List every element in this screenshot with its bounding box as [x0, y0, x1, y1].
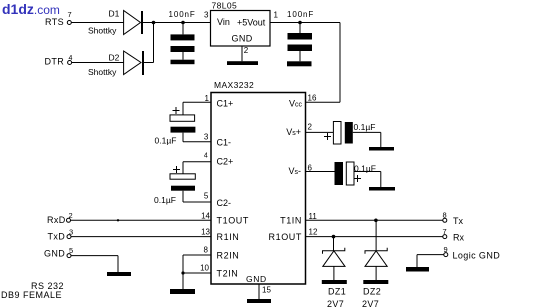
svg-text:Vin: Vin	[217, 17, 230, 27]
wire DTR to D2 anode	[72, 62, 124, 64]
svg-text:Vs-: Vs-	[288, 166, 301, 176]
svg-text:2: 2	[308, 123, 313, 132]
svg-text:GND: GND	[246, 274, 267, 284]
svg-text:0.1µF: 0.1µF	[154, 195, 176, 205]
ground (regulator)	[227, 61, 258, 65]
svg-text:0.1µF: 0.1µF	[155, 136, 177, 146]
pin 6 Vs-	[288, 164, 334, 177]
svg-text:R1IN: R1IN	[217, 232, 240, 242]
svg-text:DB9 FEMALE: DB9 FEMALE	[1, 290, 62, 300]
ground (DZ1)	[322, 280, 347, 284]
diode D1 (Schottky)	[88, 9, 143, 36]
svg-text:DZ2: DZ2	[363, 287, 381, 297]
capacitor C1 0.1uF	[155, 102, 196, 145]
svg-text:11: 11	[309, 212, 318, 221]
pin 15 GND	[246, 274, 271, 299]
connector GND (DB9 pin 5)	[44, 246, 73, 259]
svg-text:GND: GND	[232, 34, 253, 44]
svg-text:78L05: 78L05	[212, 1, 238, 11]
svg-text:GND: GND	[44, 249, 65, 259]
connector RxD (DB9 pin 2)	[47, 211, 73, 225]
svg-text:Vs+: Vs+	[286, 127, 301, 137]
svg-text:3: 3	[204, 132, 209, 141]
ground (Vs- cap)	[369, 187, 395, 191]
svg-text:16: 16	[308, 94, 317, 103]
node junction at input cap	[181, 21, 185, 25]
connector DTR (DB9 pin 4)	[45, 55, 73, 67]
pin 2 Vs+	[286, 123, 333, 138]
svg-text:T2IN: T2IN	[217, 269, 239, 279]
capacitor C4 0.1uF (Vs-)	[335, 162, 381, 187]
svg-text:R1OUT: R1OUT	[268, 232, 302, 242]
svg-text:Tx: Tx	[453, 216, 463, 226]
svg-text:C2+: C2+	[217, 157, 234, 167]
wire R2IN/T2IN junction to ground	[181, 255, 184, 289]
ground (DZ2)	[363, 280, 388, 284]
svg-text:14: 14	[201, 212, 210, 221]
wire D2 cathode to junction	[144, 62, 154, 64]
svg-text:12: 12	[309, 228, 318, 237]
zener diode DZ2 2V7	[362, 220, 387, 308]
ground (Logic GND)	[406, 267, 429, 272]
IC U1 MAX3232	[211, 80, 306, 284]
capacitor C2 0.1uF	[154, 162, 195, 205]
svg-text:3: 3	[204, 11, 209, 20]
svg-text:RxD: RxD	[47, 215, 66, 225]
node junction at output cap	[298, 21, 302, 25]
svg-text:1: 1	[274, 11, 279, 20]
pin 13 R1IN wire TxD	[71, 228, 239, 243]
svg-text:Shottky: Shottky	[88, 67, 117, 77]
svg-text:8: 8	[204, 246, 209, 255]
zener diode DZ1 2V7	[323, 237, 347, 308]
regulator U2 78L05	[204, 1, 279, 56]
svg-text:Shottky: Shottky	[88, 26, 117, 36]
svg-text:DZ1: DZ1	[328, 287, 346, 297]
svg-text:2V7: 2V7	[362, 299, 379, 308]
connector Rx (pin 7)	[443, 227, 465, 243]
svg-text:100nF: 100nF	[169, 10, 196, 19]
diode D2 (Schottky)	[88, 51, 144, 77]
pin 16 Vcc	[289, 94, 340, 109]
pin 14 T1OUT wire RxD	[71, 212, 250, 226]
wire RTS to D1 anode	[72, 22, 124, 24]
wire D1 cathode to regulator input	[143, 22, 211, 24]
wire GND to ground	[71, 256, 118, 272]
svg-text:C2-: C2-	[217, 198, 232, 208]
ground (DB9 GND)	[107, 272, 131, 276]
svg-text:MAX3232: MAX3232	[214, 80, 254, 90]
svg-text:D2: D2	[109, 53, 120, 63]
capacitor C3 0.1uF (Vs+)	[324, 122, 381, 148]
svg-text:T1IN: T1IN	[280, 216, 302, 226]
pin 8 R2IN	[183, 246, 239, 261]
svg-text:5: 5	[204, 192, 209, 201]
svg-text:C1-: C1-	[217, 138, 232, 148]
svg-text:Logic GND: Logic GND	[453, 251, 501, 261]
svg-text:0.1µF: 0.1µF	[354, 122, 376, 132]
svg-text:TxD: TxD	[48, 232, 66, 242]
svg-text:100nF: 100nF	[287, 10, 314, 19]
connector TxD (DB9 pin 3)	[48, 228, 74, 242]
svg-text:D1: D1	[109, 9, 120, 19]
svg-text:R2IN: R2IN	[217, 251, 240, 261]
connector Logic GND (pin 9)	[444, 245, 501, 261]
svg-text:C1+: C1+	[217, 99, 234, 109]
ground (R2IN/T2IN)	[170, 289, 195, 294]
svg-text:+5Vout: +5Vout	[237, 18, 266, 28]
ground (Vs+ cap)	[369, 147, 394, 151]
svg-text:d1dz.com: d1dz.com	[2, 1, 60, 17]
svg-text:T1OUT: T1OUT	[217, 216, 250, 226]
svg-text:10: 10	[200, 264, 209, 273]
ground (IC pin 15)	[247, 299, 271, 303]
svg-text:13: 13	[201, 228, 210, 237]
svg-text:4: 4	[204, 153, 208, 160]
svg-text:15: 15	[262, 286, 271, 295]
wire regulator pin 2 to ground	[241, 46, 243, 61]
pin 5 C2-	[183, 192, 231, 209]
svg-text:Vcc: Vcc	[289, 99, 303, 109]
wire regulator output to Vcc rail	[270, 23, 340, 103]
svg-text:Rx: Rx	[453, 233, 464, 243]
pin 3 C1-	[183, 132, 231, 147]
ground (output cap)	[287, 61, 312, 66]
svg-text:2V7: 2V7	[327, 299, 344, 308]
ground (input cap)	[171, 60, 195, 64]
pin 1 C1+	[183, 94, 233, 109]
capacitor 100nF (regulator output)	[287, 10, 314, 61]
pin 4 C2+	[183, 153, 233, 167]
svg-text:2: 2	[244, 46, 249, 55]
connector Tx (pin 8)	[443, 211, 464, 227]
wire Logic GND to ground	[417, 255, 444, 267]
pin 12 R1OUT wire to Rx	[268, 228, 442, 243]
wire junction column D1/D2	[152, 21, 156, 63]
pin 10 T2IN	[183, 264, 238, 279]
svg-text:1: 1	[205, 94, 210, 103]
svg-text:7: 7	[68, 10, 72, 19]
capacitor 100nF (regulator input)	[169, 10, 196, 60]
connector RTS (DB9 pin 7)	[45, 10, 72, 27]
pin 11 T1IN wire to Tx	[280, 212, 443, 226]
svg-text:DTR: DTR	[45, 57, 65, 67]
svg-text:RTS: RTS	[45, 17, 64, 27]
